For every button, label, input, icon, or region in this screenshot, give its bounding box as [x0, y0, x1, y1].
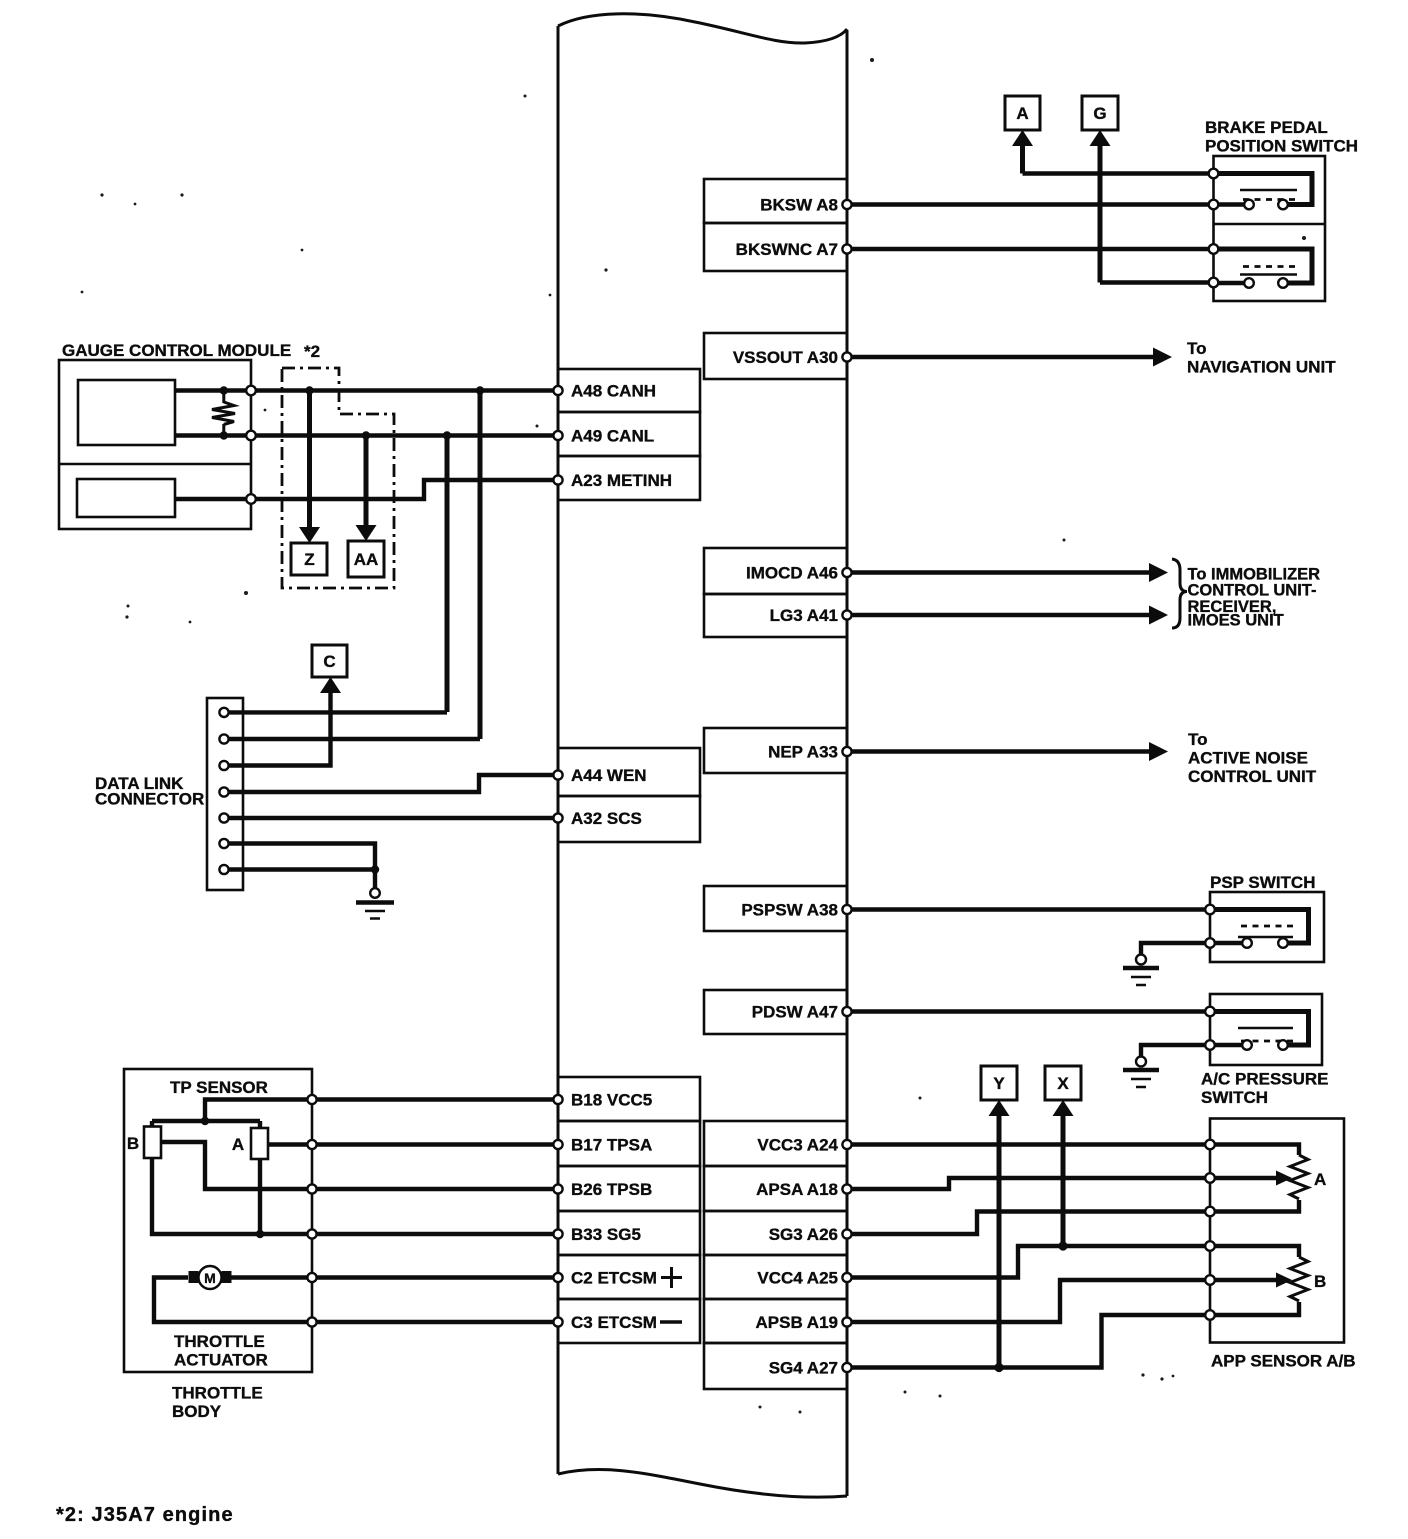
svg-text:A49 CANL: A49 CANL	[571, 427, 654, 446]
svg-text:BKSWNC A7: BKSWNC A7	[736, 240, 838, 259]
svg-text:X: X	[1057, 1074, 1069, 1093]
svg-text:*2: J35A7 engine: *2: J35A7 engine	[56, 1504, 234, 1526]
svg-text:PSPSW A38: PSPSW A38	[741, 901, 838, 920]
svg-text:A32 SCS: A32 SCS	[571, 809, 642, 828]
svg-text:A: A	[232, 1135, 244, 1154]
svg-text:PSP SWITCH: PSP SWITCH	[1210, 873, 1315, 892]
svg-text:PDSW A47: PDSW A47	[752, 1003, 838, 1022]
svg-text:NEP A33: NEP A33	[768, 743, 838, 762]
svg-text:A48 CANH: A48 CANH	[571, 382, 656, 401]
svg-text:CONTROL UNIT: CONTROL UNIT	[1188, 767, 1317, 786]
svg-text:B33 SG5: B33 SG5	[571, 1225, 641, 1244]
svg-text:POSITION SWITCH: POSITION SWITCH	[1205, 137, 1358, 156]
svg-text:IMOES UNIT: IMOES UNIT	[1188, 612, 1284, 630]
svg-text:B: B	[1314, 1272, 1326, 1291]
svg-text:BRAKE PEDAL: BRAKE PEDAL	[1205, 118, 1328, 137]
svg-text:To: To	[1188, 730, 1208, 749]
svg-text:M: M	[204, 1270, 216, 1286]
svg-text:A23 METINH: A23 METINH	[571, 471, 672, 490]
svg-text:VCC4 A25: VCC4 A25	[757, 1269, 838, 1288]
svg-text:IMOCD A46: IMOCD A46	[746, 564, 838, 583]
svg-text:To: To	[1187, 339, 1207, 358]
svg-text:Z: Z	[304, 550, 314, 569]
svg-text:SG3 A26: SG3 A26	[769, 1225, 838, 1244]
svg-text:C3 ETCSM: C3 ETCSM	[571, 1313, 657, 1332]
svg-text:B17 TPSA: B17 TPSA	[571, 1136, 652, 1155]
svg-text:ACTIVE NOISE: ACTIVE NOISE	[1188, 749, 1308, 768]
svg-text:C: C	[323, 652, 335, 671]
svg-text:A44 WEN: A44 WEN	[571, 766, 647, 785]
svg-text:B18 VCC5: B18 VCC5	[571, 1091, 652, 1110]
svg-text:*2: *2	[304, 342, 320, 361]
svg-text:APSB A19: APSB A19	[755, 1313, 838, 1332]
svg-text:AA: AA	[354, 550, 379, 569]
svg-text:A: A	[1016, 104, 1028, 123]
svg-text:CONNECTOR: CONNECTOR	[95, 790, 204, 809]
svg-text:B26 TPSB: B26 TPSB	[571, 1180, 652, 1199]
svg-text:THROTTLE: THROTTLE	[172, 1384, 263, 1403]
svg-text:Y: Y	[993, 1074, 1005, 1093]
svg-text:APSA A18: APSA A18	[756, 1180, 838, 1199]
svg-text:A: A	[1314, 1170, 1326, 1189]
svg-text:VCC3 A24: VCC3 A24	[757, 1136, 838, 1155]
svg-text:SWITCH: SWITCH	[1201, 1088, 1268, 1107]
svg-text:CONTROL UNIT-: CONTROL UNIT-	[1188, 582, 1317, 600]
svg-text:GAUGE CONTROL MODULE: GAUGE CONTROL MODULE	[62, 341, 291, 360]
svg-text:TP SENSOR: TP SENSOR	[170, 1078, 268, 1097]
svg-text:VSSOUT A30: VSSOUT A30	[733, 348, 838, 367]
svg-text:ACTUATOR: ACTUATOR	[174, 1351, 268, 1370]
svg-text:APP SENSOR A/B: APP SENSOR A/B	[1211, 1352, 1356, 1371]
svg-text:G: G	[1093, 104, 1106, 123]
svg-text:B: B	[127, 1134, 139, 1153]
svg-text:C2 ETCSM: C2 ETCSM	[571, 1269, 657, 1288]
svg-text:A/C PRESSURE: A/C PRESSURE	[1201, 1070, 1329, 1089]
svg-text:BKSW A8: BKSW A8	[760, 196, 838, 215]
svg-text:SG4 A27: SG4 A27	[769, 1359, 838, 1378]
svg-text:LG3 A41: LG3 A41	[770, 606, 838, 625]
svg-text:BODY: BODY	[172, 1402, 222, 1421]
svg-text:NAVIGATION UNIT: NAVIGATION UNIT	[1187, 358, 1336, 377]
svg-text:THROTTLE: THROTTLE	[174, 1332, 265, 1351]
